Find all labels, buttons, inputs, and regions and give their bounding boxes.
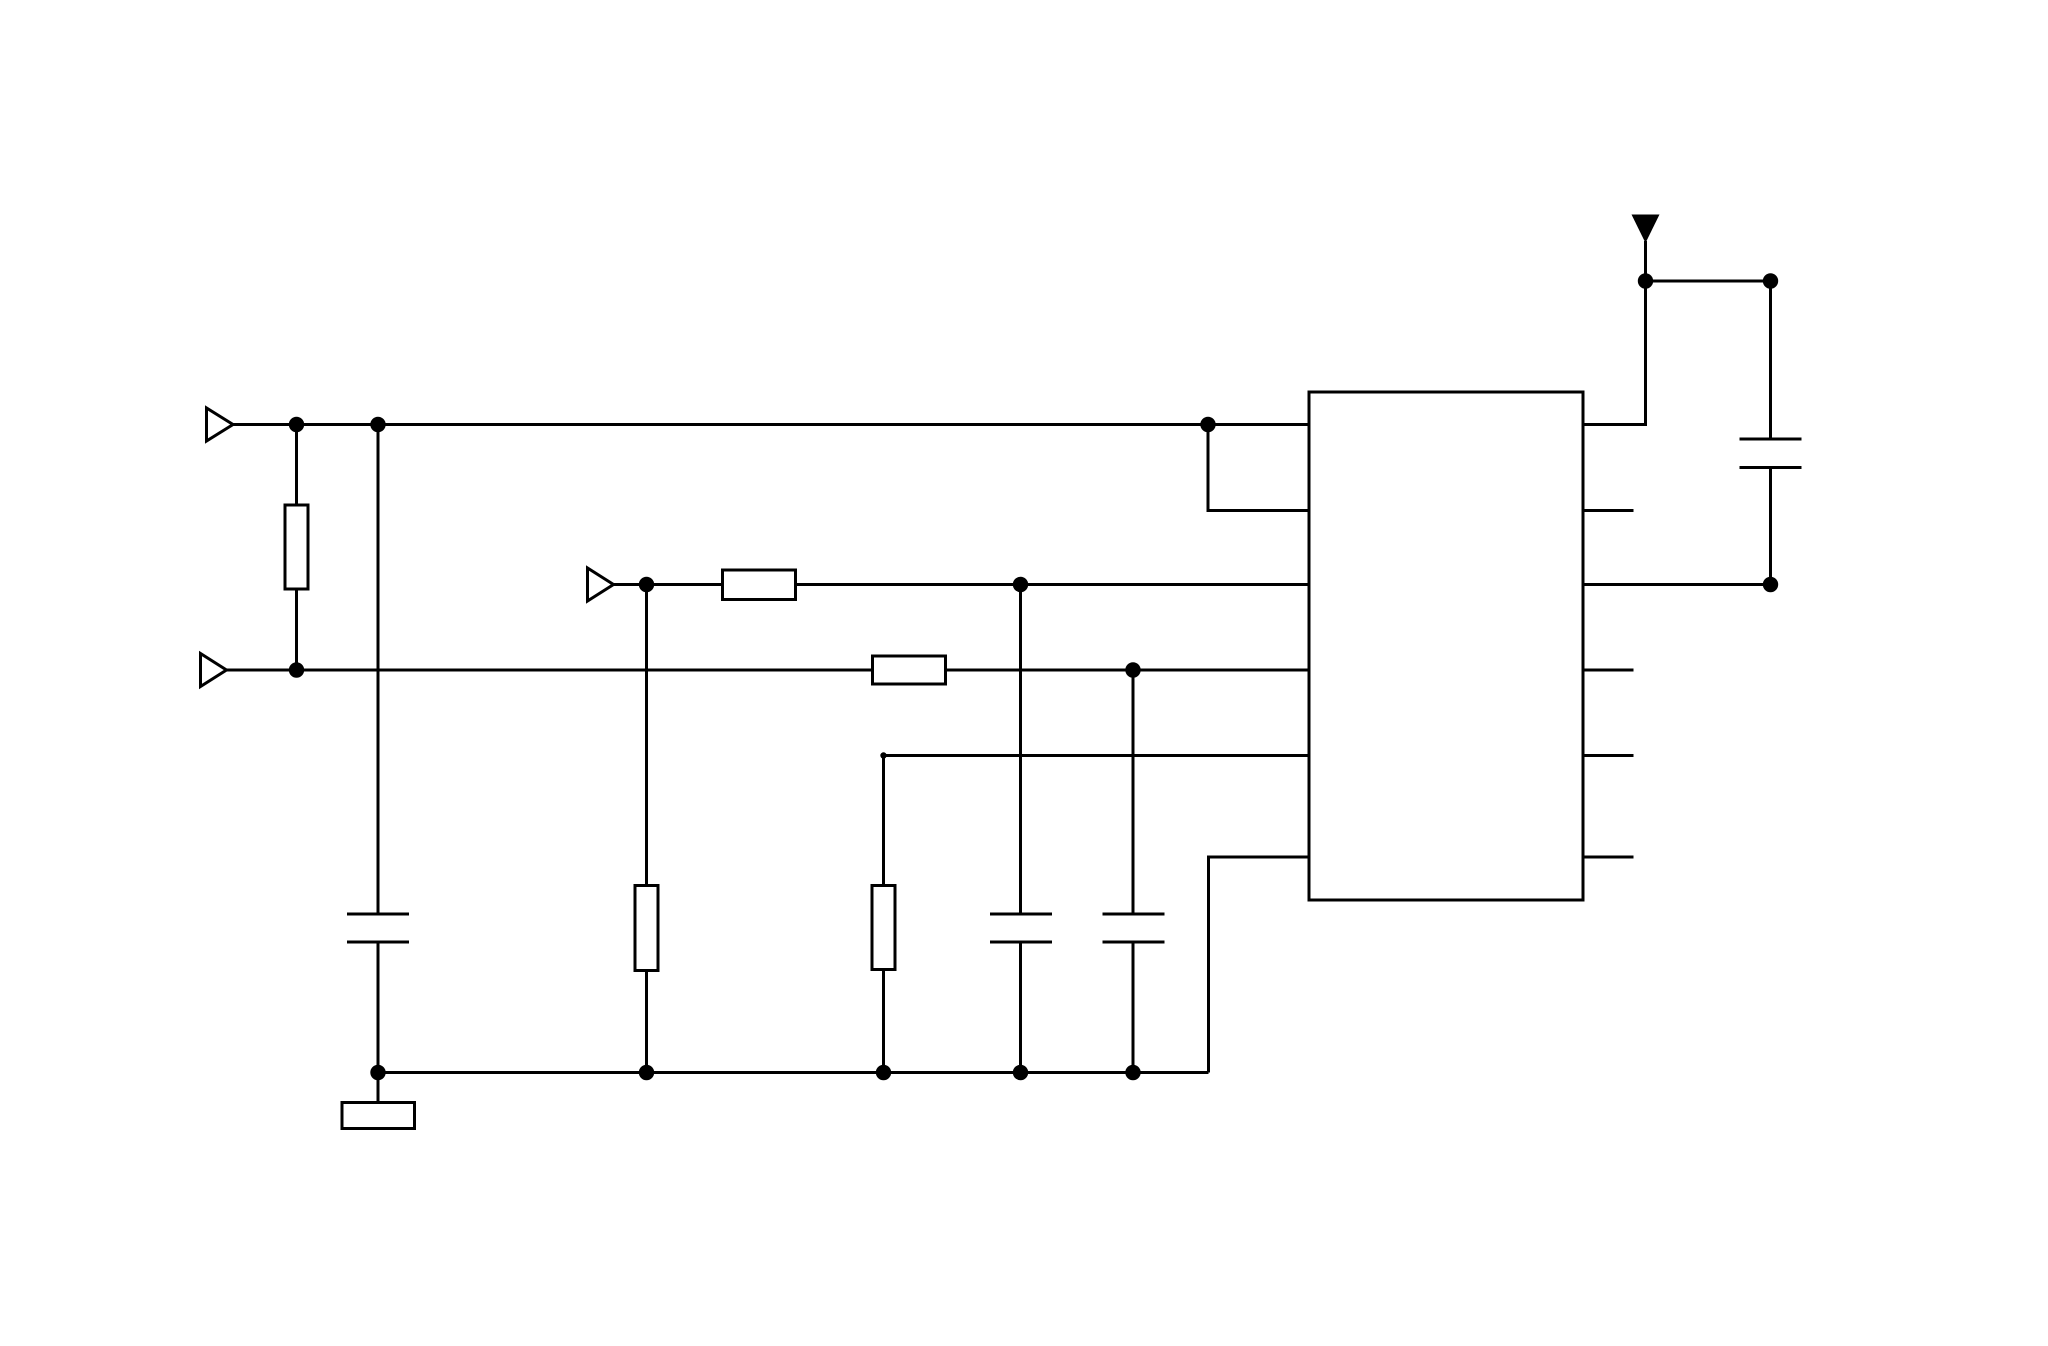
wire R1 top lead xyxy=(295,425,298,505)
wire C2 top lead xyxy=(1019,585,1022,914)
wire net RF2 to U1 pin 4 xyxy=(947,669,1310,672)
junction node GND-C2 xyxy=(1013,1065,1028,1080)
wire R5 top lead xyxy=(882,756,885,885)
resistor R5 xyxy=(872,886,895,970)
wire R1 bottom lead xyxy=(295,590,298,670)
junction node RF1-pin2 xyxy=(1200,417,1215,432)
junction node RF2-C3 xyxy=(1125,662,1140,677)
wire C1 bottom lead xyxy=(377,943,380,1073)
ground bar xyxy=(342,1103,415,1129)
wire ground stub xyxy=(377,1073,380,1102)
IC U1 xyxy=(1309,392,1583,900)
port P1 xyxy=(207,408,234,441)
wire C4 bottom lead xyxy=(1769,469,1772,585)
wire C1 top lead xyxy=(377,425,380,914)
resistor R3 xyxy=(873,656,946,684)
resistor R4 xyxy=(635,886,658,971)
wire step to U1 pin 2 xyxy=(1208,425,1309,511)
wire R5 bottom lead xyxy=(882,971,885,1073)
junction node EN-C2 xyxy=(1013,577,1028,592)
wire net RF1 to U1 pin 1 xyxy=(1208,423,1309,426)
wire U1 pin 6r stub xyxy=(1583,856,1634,859)
capacitor C1 xyxy=(347,914,409,942)
wire net RF1 row xyxy=(233,423,1208,426)
wire net VDET to U1 pin 5 xyxy=(884,754,1310,757)
junction node GND-R5 xyxy=(876,1065,891,1080)
resistor R2 xyxy=(723,570,796,600)
junction node C4-pin3r xyxy=(1763,577,1778,592)
wire U1 pin 4r stub xyxy=(1583,669,1634,672)
port P3 xyxy=(588,568,614,601)
junction node GND-C3 xyxy=(1125,1065,1140,1080)
junction node GND-R4 xyxy=(639,1065,654,1080)
wire C2 bottom lead xyxy=(1019,943,1022,1073)
wire U1 pin 1 to antenna xyxy=(1583,281,1646,425)
wire C3 bottom lead xyxy=(1132,943,1135,1073)
wire net RF2 left xyxy=(227,669,872,672)
antenna ANT1 xyxy=(1632,215,1660,282)
wire U1 pin 5r stub xyxy=(1583,754,1634,757)
resistor R1 xyxy=(285,505,308,589)
wire R4 bottom lead xyxy=(645,972,648,1073)
wire R4 top lead xyxy=(645,585,648,885)
junction node RF1-C1 xyxy=(370,417,385,432)
junction node RF1-R1 xyxy=(289,417,304,432)
node VDET dot xyxy=(880,752,886,758)
wire U1 pin 2r stub xyxy=(1583,509,1634,512)
junction node GND-C1 xyxy=(370,1065,385,1080)
wire C4 top lead xyxy=(1769,281,1772,438)
capacitor C4 xyxy=(1740,439,1802,468)
wire C3 top lead xyxy=(1132,670,1135,913)
wire net EN left xyxy=(614,583,722,586)
junction node RF2-R1 xyxy=(289,662,304,677)
wire antenna top link xyxy=(1646,280,1771,283)
wire ground step to U1 pin 6 xyxy=(1209,857,1310,1073)
wire ground bus xyxy=(378,1071,1209,1074)
capacitor C2 xyxy=(990,914,1052,942)
junction node ANT-C4 top xyxy=(1763,273,1778,288)
wire net EN to U1 pin 3 xyxy=(797,583,1310,586)
wire U1 pin 3r to C4 xyxy=(1583,583,1771,586)
capacitor C3 xyxy=(1103,914,1165,942)
port P2 xyxy=(201,654,227,687)
junction node ANT-stem xyxy=(1638,273,1653,288)
junction node EN-R4 xyxy=(639,577,654,592)
